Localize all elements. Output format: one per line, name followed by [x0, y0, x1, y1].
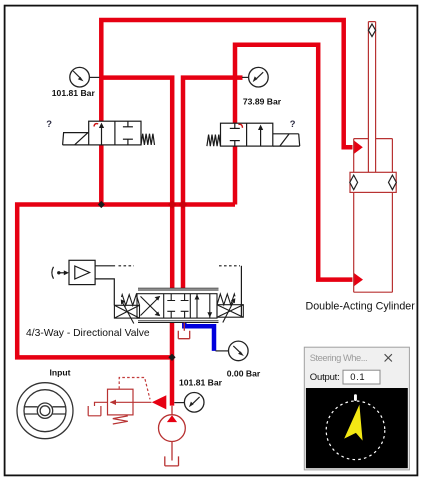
- input dot and arrow: [57, 271, 60, 274]
- right solenoid box: [217, 305, 243, 318]
- junction red diamond at B-line crossing: [179, 200, 188, 209]
- barrel lower walls and bottom: [354, 192, 393, 292]
- wire: B port up and right to gauge2: [183, 78, 243, 289]
- window frame: [304, 347, 409, 470]
- rod sensor diamond: [368, 24, 375, 37]
- piston diamond left: [350, 175, 358, 190]
- dashed signal group 1: [119, 265, 135, 267]
- svg-text:73.89 Bar: 73.89 Bar: [243, 97, 282, 107]
- svg-text:?: ?: [46, 118, 52, 129]
- arrowhead left proportional solenoid: [121, 299, 125, 304]
- dashed signal group 2: [219, 265, 240, 267]
- left solenoid box: [114, 305, 139, 318]
- box: [69, 260, 95, 284]
- piston diamond right: [389, 175, 397, 190]
- spring below: [113, 416, 128, 424]
- dashed dial circle: [326, 401, 385, 460]
- red state mark left valve: [94, 124, 98, 127]
- svg-text:101.81 Bar: 101.81 Bar: [179, 378, 223, 388]
- thin black connector gauge2: [242, 76, 249, 78]
- corner down to right solenoid: [240, 266, 242, 317]
- input symbol arc: [52, 267, 54, 279]
- junction red diamond at A-line crossing: [168, 200, 177, 209]
- bottom rails: [138, 321, 219, 323]
- junction black dot left-valve drop: [98, 201, 105, 208]
- left proportional arrow: [122, 301, 134, 324]
- right proportional arrow: [223, 300, 235, 323]
- yellow pointer: [344, 405, 362, 441]
- svg-text:0.1: 0.1: [350, 371, 365, 382]
- blocked T top in right box: [127, 121, 129, 127]
- arrow into cylinder bottom port: [354, 273, 363, 287]
- left box crossed arrows: [141, 296, 160, 315]
- big red arrow into relief line: [152, 395, 167, 409]
- valve body: [89, 121, 141, 145]
- wire: top run from left valve top over to cylinder top port: [101, 20, 352, 147]
- drain tank: [88, 406, 101, 416]
- open-path arrow in left box: [101, 125, 103, 145]
- middle box blocked Ts: [167, 294, 188, 318]
- output field: [343, 370, 380, 384]
- svg-text:Double-Acting Cylinder: Double-Acting Cylinder: [306, 301, 416, 313]
- flow line through: [111, 401, 152, 403]
- arrowhead parallel flow up: [195, 294, 200, 299]
- body square: [108, 389, 134, 415]
- barrel upper walls: [354, 139, 393, 173]
- svg-text:Output:: Output:: [310, 372, 340, 383]
- valve body: [221, 123, 273, 146]
- blocked T top in left box: [234, 123, 236, 128]
- thin black connector gauge1: [89, 76, 99, 78]
- open-path arrow in right box: [260, 127, 262, 146]
- blocked T bottom in right box: [127, 139, 129, 145]
- wire: P port down to pump: [170, 322, 175, 405]
- manual lever right: [273, 134, 300, 146]
- body: [137, 294, 217, 318]
- barrel top edges: [354, 138, 393, 140]
- arrowhead parallel flow down: [207, 312, 212, 317]
- arrowhead right proportional solenoid: [231, 298, 235, 303]
- close X: [385, 354, 392, 361]
- spring right: [141, 134, 155, 145]
- top rails: [138, 288, 219, 290]
- arrowhead right valve open path: [258, 125, 263, 130]
- svg-text:?: ?: [290, 118, 296, 129]
- triangle: [75, 266, 90, 279]
- wire: manifold horizontal + left drop + bottom run: [17, 205, 235, 358]
- right spring: [217, 294, 235, 305]
- signal line to valve left solenoid: [95, 279, 114, 305]
- relief arrowhead (left): [110, 400, 116, 405]
- arrowhead of open path: [99, 123, 104, 128]
- wire: right valve top up, over, down to cylinder bottom port: [235, 45, 353, 280]
- arrowhead crossed flow up-right: [155, 296, 160, 301]
- piston band: [350, 172, 396, 192]
- junction black dot pump line: [168, 354, 175, 361]
- right box parallel paths: [197, 294, 210, 318]
- pilot dashed line: [119, 378, 150, 400]
- spring left: [207, 135, 221, 147]
- signal line right solid part: [95, 265, 115, 267]
- svg-text:0.00 Bar: 0.00 Bar: [227, 369, 261, 379]
- left spring: [122, 295, 140, 306]
- black dial canvas: [306, 388, 408, 468]
- left drain line: [95, 402, 108, 406]
- manual lever left: [63, 133, 89, 145]
- thin black connector gauge4: [174, 402, 184, 404]
- red state mark right valve: [238, 124, 242, 128]
- wire: below left valve down to manifold line: [99, 145, 104, 205]
- svg-text:Steering Whe...: Steering Whe...: [310, 353, 367, 363]
- wire: below right valve down to corner: [233, 146, 238, 205]
- svg-text:4/3-Way - Directional Valve: 4/3-Way - Directional Valve: [26, 328, 150, 339]
- arrowhead crossed flow down-right: [155, 312, 160, 317]
- thin black connector gauge3: [216, 350, 229, 352]
- svg-text:101.81 Bar: 101.81 Bar: [52, 88, 96, 98]
- arrow into cylinder top port: [354, 140, 363, 154]
- piston rod lines: [368, 22, 375, 173]
- wire: gauge1 branch to 4/3 valve A port: [101, 78, 172, 289]
- white tick: [354, 394, 357, 401]
- svg-text:Input: Input: [50, 368, 71, 378]
- pump up arrow: [167, 415, 177, 422]
- blocked T bottom in left box: [234, 141, 236, 147]
